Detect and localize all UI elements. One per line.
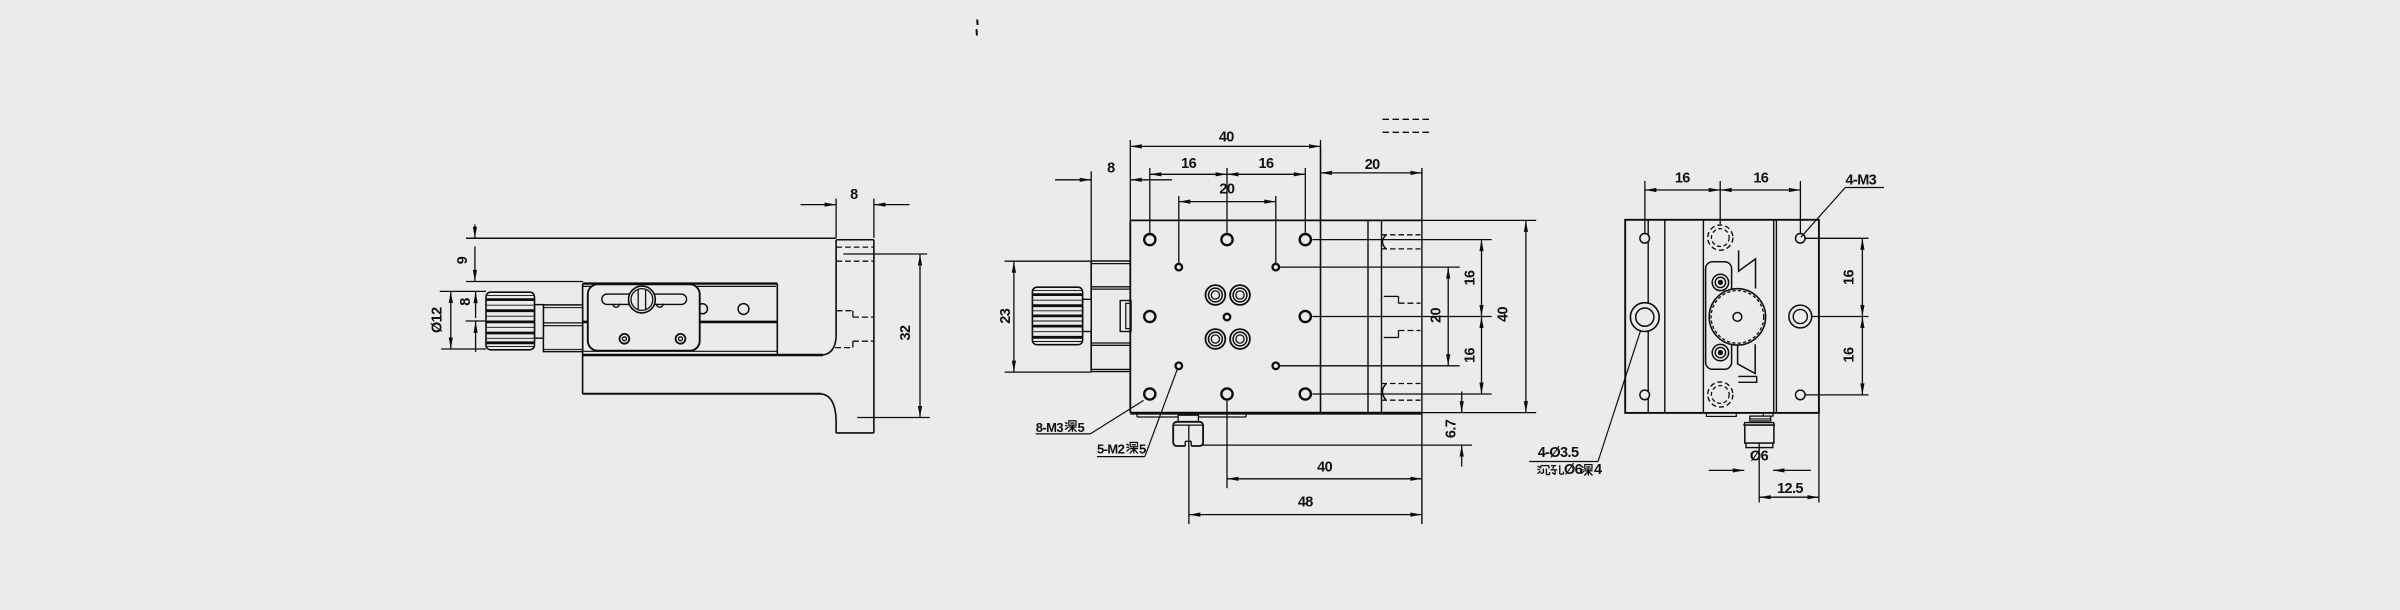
left view: base top extension line (dim 9) <box>466 281 583 283</box>
svg-text:Ø6: Ø6 <box>1750 449 1769 465</box>
left view: micrometer shaft block <box>543 305 582 352</box>
middle view: dim 16 16 right side <box>1463 240 1484 394</box>
left view: moving plate top surface line <box>466 237 836 239</box>
middle view: M2 holes <box>1176 264 1280 369</box>
middle view: center bearing rings <box>1206 285 1250 349</box>
right view: dashed bearing circles bottom <box>1708 382 1733 407</box>
middle view: knob bottom extension line 6.7 <box>1203 444 1472 446</box>
svg-text:16: 16 <box>1259 156 1274 172</box>
right view: spring wedge top <box>1739 250 1756 288</box>
middle view: main plate outline <box>1130 146 1422 413</box>
middle view: dim 8 top left <box>1055 160 1172 261</box>
middle view: dim 20 top right <box>1321 157 1422 175</box>
right view: bottom tab <box>1706 413 1736 417</box>
right view: dim 16 16 top <box>1645 171 1801 234</box>
middle view: dim 20 right side <box>1429 267 1451 366</box>
right view: bar screw bottom <box>1712 344 1728 360</box>
middle view: dim 20 top <box>1179 182 1276 264</box>
svg-text:16: 16 <box>1463 270 1479 285</box>
right view: label 4-Dia3.5 counterbore with leader <box>1529 331 1640 478</box>
right view: bottom knob <box>1744 413 1774 503</box>
svg-text:23: 23 <box>998 308 1014 323</box>
right view: corner holes 4-M3 <box>1640 234 1805 400</box>
left view: rail right edge <box>776 284 778 355</box>
middle view: knob collar <box>1083 299 1092 331</box>
svg-text:6.7: 6.7 <box>1444 419 1460 438</box>
svg-text:8: 8 <box>850 187 858 203</box>
left view: lead screw head <box>629 286 656 313</box>
right view: spring wedge bottom <box>1738 344 1756 373</box>
left view: base block bottom edge with fillet to foot <box>583 394 837 433</box>
middle view: housing block left of plate <box>1091 261 1130 372</box>
middle view: hole row extension lines <box>1279 220 1536 412</box>
right view: right middle hole <box>1789 305 1812 328</box>
right view: knob end circle knurled <box>1709 289 1765 345</box>
left view: dim 8 top <box>801 187 910 238</box>
svg-text:40: 40 <box>1317 460 1332 476</box>
svg-text:4: 4 <box>1594 462 1602 478</box>
right view: step below wedge <box>1738 376 1756 382</box>
right view: dim 12.5 <box>1759 413 1819 503</box>
left view: slot screw bumps <box>613 304 663 307</box>
svg-text:40: 40 <box>1219 129 1234 145</box>
svg-text:20: 20 <box>1429 308 1445 323</box>
right view: vertical bar <box>1706 262 1732 370</box>
middle view: rail hidden step lower <box>1384 331 1421 338</box>
left view: foot outline <box>836 240 874 433</box>
svg-text:16: 16 <box>1675 171 1690 187</box>
svg-text:5: 5 <box>1139 441 1146 456</box>
svg-text:16: 16 <box>1181 156 1196 172</box>
middle view: rail section verticals <box>1368 168 1422 524</box>
svg-text:12.5: 12.5 <box>1777 481 1803 497</box>
left view: dim 32 <box>843 254 929 418</box>
middle view: rail hidden screw bottom <box>1382 384 1421 401</box>
svg-text:Ø12: Ø12 <box>429 307 445 333</box>
right view: carriage right edges <box>1774 220 1777 413</box>
left view: knurled knob <box>486 292 535 350</box>
left view: dim Dia12 <box>429 292 486 350</box>
left view: foot hidden hole dashes <box>837 247 874 261</box>
left view: rail mid line <box>583 321 778 324</box>
svg-text:20: 20 <box>1219 182 1234 198</box>
svg-text:4-Ø3.5: 4-Ø3.5 <box>1538 445 1579 461</box>
middle view: dim 40 top <box>1130 129 1320 220</box>
left view: foot hidden step upper <box>837 311 874 317</box>
svg-text:16: 16 <box>1463 348 1479 363</box>
right view: dashed bearing circles top <box>1708 225 1733 250</box>
left view: base block top edge with fillet to foot <box>583 337 837 355</box>
svg-text:20: 20 <box>1365 157 1380 173</box>
middle view: rail hidden step upper <box>1384 296 1421 303</box>
right view: carriage left edge <box>1702 220 1704 413</box>
left view: rail screw holes <box>698 304 749 315</box>
svg-text:5: 5 <box>1078 420 1085 435</box>
middle view: label 5-M2 deep5 with leader <box>1097 370 1177 457</box>
svg-text:16: 16 <box>1842 347 1858 362</box>
right view: label 4-M3 with leader <box>1801 172 1884 237</box>
left view: rail bottom line <box>583 350 778 352</box>
middle view: label 8-M3 deep5 with leader <box>1036 400 1144 434</box>
middle view: dim 23 left <box>998 261 1091 372</box>
left view: dim 8 knob <box>440 291 486 352</box>
svg-text:Ø6: Ø6 <box>1564 462 1583 478</box>
svg-text:4-M3: 4-M3 <box>1846 172 1877 188</box>
svg-text:8-M3: 8-M3 <box>1036 420 1064 435</box>
left view: clamp screws <box>620 334 686 344</box>
right view: dim Dia6 <box>1709 449 1811 473</box>
middle view: dim 40 bottom <box>1227 401 1422 488</box>
svg-text:40: 40 <box>1496 307 1512 322</box>
middle view: dim 6.7 <box>1444 392 1464 467</box>
right view: counterbore hole left 4-Dia3.5 <box>1630 303 1659 332</box>
middle view: screw bracket inside housing <box>1120 301 1131 332</box>
left view: foot hidden step lower <box>835 341 874 347</box>
left view: clamp slot <box>602 294 687 304</box>
right view: bar screw top <box>1712 274 1728 290</box>
svg-text:48: 48 <box>1298 495 1313 511</box>
svg-text:9: 9 <box>455 256 471 264</box>
svg-text:16: 16 <box>1842 270 1858 285</box>
middle view: dim 16 16 top <box>1150 156 1306 233</box>
middle view: dim 40 right side <box>1496 220 1528 412</box>
svg-text:32: 32 <box>898 325 914 340</box>
middle view: knurled knob <box>1032 287 1082 345</box>
left view: shaft collar <box>535 305 544 339</box>
stray centerline dashes top center <box>977 20 978 36</box>
left view: clamp plate <box>588 284 700 350</box>
left view: body left edge <box>582 284 584 394</box>
middle view: dim 48 bottom <box>1189 446 1422 524</box>
svg-text:5-M2: 5-M2 <box>1097 441 1125 456</box>
middle view: M3 holes 3x3 grid <box>1144 234 1311 400</box>
svg-text:8: 8 <box>458 298 474 306</box>
right view: dim 16 16 right <box>1805 238 1868 395</box>
middle view: rail hidden screw top <box>1382 235 1421 249</box>
svg-text:8: 8 <box>1107 160 1115 176</box>
middle view: dashed hidden lines upper right <box>1383 119 1430 132</box>
left view: dim 9 <box>455 225 477 282</box>
right view: outer plate outline <box>1625 220 1819 413</box>
right view: left column inner edges <box>1648 220 1665 413</box>
middle view: bottom adjustment knob <box>1173 415 1203 447</box>
left view: rail block top edges <box>583 284 778 287</box>
svg-text:16: 16 <box>1753 171 1768 187</box>
middle view: base edge below plate <box>1137 414 1246 417</box>
